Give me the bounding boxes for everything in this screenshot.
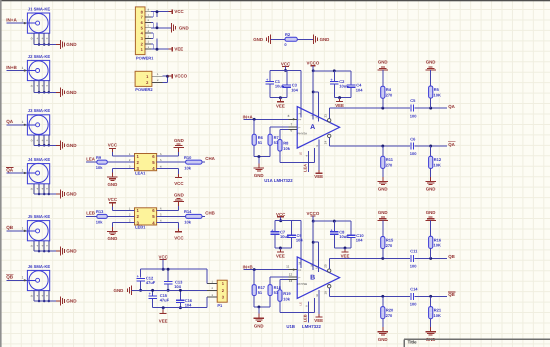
svg-text:47uF: 47uF — [146, 280, 156, 285]
power port VEE below C8/C10 — [341, 246, 350, 258]
svg-text:U1A LMH7322: U1A LMH7322 — [264, 178, 293, 183]
svg-text:10k: 10k — [96, 219, 103, 224]
svg-text:VCC: VCC — [174, 9, 184, 14]
power port VCC lower-right of LEB1 — [157, 223, 185, 241]
wire VCC rail to comparator — [275, 221, 301, 268]
wire hysteresis feedback — [280, 298, 314, 312]
wire bottom of C2/C4 — [334, 97, 351, 99]
svg-text:GND: GND — [108, 236, 118, 241]
svg-text:VCC: VCC — [281, 62, 291, 67]
svg-text:QA: QA — [448, 142, 455, 147]
net label QAbar (inverted) — [448, 142, 455, 147]
resistor R18 51 — [268, 277, 289, 307]
wire bottom of C1/C3 — [270, 97, 287, 99]
ground GND at J5 — [56, 247, 77, 256]
svg-text:R11: R11 — [386, 157, 394, 162]
power port VEE below C1/C3 — [276, 96, 285, 108]
svg-text:+: + — [41, 138, 43, 142]
pin 13 HYS — [289, 279, 298, 283]
svg-text:12: 12 — [289, 273, 293, 277]
svg-text:o: o — [31, 294, 33, 298]
connector POWER1 — [135, 7, 172, 61]
svg-text:19: 19 — [324, 291, 328, 295]
power port VCC above C1/C3 — [281, 62, 291, 72]
svg-text:104: 104 — [356, 238, 363, 243]
power port VEE at U1A supply pin — [314, 140, 323, 180]
svg-text:A: A — [310, 124, 315, 131]
wire VEE rail (bottom) — [153, 307, 207, 309]
svg-text:PHYSA: PHYSA — [298, 132, 308, 136]
svg-text:C11: C11 — [410, 248, 418, 253]
U1A output bubbles and pins — [324, 108, 331, 146]
svg-text:GND: GND — [179, 25, 189, 30]
connector POWER2 — [135, 71, 172, 92]
svg-text:VCC: VCC — [174, 181, 184, 186]
resistor R7 51 — [268, 127, 289, 157]
wire bottom of C7/C9 — [275, 247, 292, 249]
power port VEE at POWER1 — [169, 47, 184, 52]
svg-text:CHB: CHB — [205, 211, 215, 216]
svg-text:QB: QB — [448, 254, 455, 259]
ground GND at J6 — [56, 296, 77, 305]
capacitor C4 104 — [347, 71, 363, 98]
wire U1B Q output — [329, 257, 447, 260]
pin 8 IN+ — [288, 114, 298, 120]
power port VEE at U1B supply pin — [314, 290, 323, 323]
sheet left edge — [0, 0, 2, 347]
sheet top edge — [0, 0, 550, 1]
resistor R12 10K with ground below — [426, 146, 442, 192]
U1B output bubbles and pins — [324, 258, 331, 296]
power port VCCO — [307, 211, 320, 223]
power port VCC upper-left of LEB1 — [108, 197, 135, 211]
ground GND lower-left of LEA1 — [107, 168, 134, 187]
wire middle rail to P1 — [141, 289, 207, 291]
svg-text:QB: QB — [6, 275, 14, 280]
capacitor C1 10uF — [266, 70, 285, 97]
ground GND upper-right of LEA1 — [157, 138, 184, 156]
svg-text:VCCO: VCCO — [307, 61, 320, 66]
resistor R11 270 with ground below — [378, 146, 394, 192]
svg-text:QA: QA — [448, 104, 455, 109]
relay LEA1 — [128, 153, 163, 175]
svg-text:24: 24 — [324, 141, 328, 145]
capacitor C2 10uF — [330, 69, 349, 97]
svg-text:GND: GND — [378, 187, 388, 192]
svg-text:1: 1 — [22, 226, 24, 230]
svg-text:+: + — [36, 84, 38, 88]
svg-text:1: 1 — [22, 19, 24, 23]
capacitor C6 100 series — [410, 136, 417, 156]
svg-text:VEE: VEE — [276, 254, 285, 259]
ground GND left of R2 — [253, 35, 285, 44]
net label QA at J3 — [6, 119, 14, 124]
svg-text:GND: GND — [426, 210, 436, 215]
ground GND at J1 — [56, 40, 77, 49]
svg-text:1: 1 — [22, 168, 24, 172]
power port VCC lower-right of LEA1 — [157, 168, 185, 186]
svg-text:270: 270 — [386, 313, 393, 318]
svg-text:104: 104 — [296, 238, 303, 243]
svg-text:VEE: VEE — [276, 103, 285, 108]
capacitor C13 104 — [164, 268, 183, 292]
net label IN+A at J1 — [6, 17, 17, 22]
designator U1B LMH7322 — [286, 324, 321, 329]
svg-text:+: + — [36, 37, 38, 41]
connector P1 — [207, 280, 227, 308]
svg-text:GND: GND — [378, 210, 388, 215]
svg-text:GND: GND — [426, 60, 436, 65]
power port VCCO at POWER2 — [169, 74, 188, 79]
capacitor C14 100 series — [410, 287, 419, 307]
ground GND right of R2 — [297, 35, 329, 44]
power port VCC above C12/C13 — [159, 254, 169, 270]
ground GND upper-right of LEB1 — [157, 192, 184, 210]
svg-text:104: 104 — [174, 284, 181, 289]
resistor R4 270 with ground above — [378, 60, 393, 109]
svg-text:o: o — [31, 244, 33, 248]
svg-text:1: 1 — [22, 120, 24, 124]
resistor R14 10k to net label CHB from LEB1 pin 5 — [157, 209, 215, 225]
svg-text:o: o — [31, 37, 33, 41]
svg-text:B: B — [310, 275, 315, 282]
svg-text:J1 SMA-KE: J1 SMA-KE — [28, 6, 51, 11]
connector J2 SMA-KE — [6, 54, 56, 94]
svg-text:IN+A: IN+A — [6, 17, 17, 22]
resistor R17 51 — [252, 270, 266, 307]
net label LEA with resistor R9 10k into LEA1 pin 2 — [86, 155, 134, 170]
resistor R19 10k — [278, 280, 292, 313]
svg-text:GND: GND — [253, 37, 263, 42]
svg-text:R15: R15 — [386, 237, 394, 242]
op-amp U1A LMH7322 comparator A — [297, 107, 339, 149]
wire VCCO rail to C2/C4 — [313, 70, 351, 72]
svg-text:VEE: VEE — [341, 254, 350, 259]
svg-text:10K: 10K — [434, 243, 441, 248]
wire U1A Q output — [329, 107, 447, 110]
svg-text:GND: GND — [66, 42, 77, 47]
ground GND lower-left of LEB1 — [107, 223, 134, 242]
svg-text:C6: C6 — [410, 136, 416, 141]
capacitor C12 47uF — [136, 269, 155, 292]
net label QBbar (inverted) — [448, 292, 455, 297]
net label LEB with resistor R13 10k into LEB1 pin 2 — [86, 209, 134, 224]
svg-text:R14: R14 — [184, 209, 192, 214]
svg-text:+: + — [41, 187, 43, 191]
svg-text:R21: R21 — [434, 308, 442, 313]
wire U1A Qbar output — [329, 145, 447, 148]
svg-text:10k: 10k — [184, 165, 191, 170]
svg-text:GND: GND — [66, 299, 77, 304]
capacitor C16 104 — [176, 289, 193, 309]
svg-text:104: 104 — [185, 302, 192, 307]
svg-text:LEA1: LEA1 — [135, 170, 146, 175]
svg-text:R8: R8 — [283, 141, 289, 146]
svg-text:LEB: LEB — [86, 211, 95, 216]
svg-text:LEA: LEA — [303, 164, 308, 172]
svg-text:LE: LE — [298, 302, 302, 306]
svg-text:7: 7 — [290, 122, 292, 126]
svg-text:270: 270 — [386, 243, 393, 248]
power port VCC at POWER1 — [169, 9, 185, 14]
svg-text:R10: R10 — [184, 155, 192, 160]
op-amp U1B LMH7322 comparator B — [297, 257, 339, 299]
svg-text:+: + — [41, 84, 43, 88]
svg-text:GND: GND — [114, 288, 124, 293]
svg-text:+: + — [46, 37, 48, 41]
net label LEB latch-enable pin — [298, 301, 308, 322]
svg-text:47uF: 47uF — [160, 298, 170, 303]
power port VEE below C15/C16 — [159, 306, 168, 323]
power port VCC upper-left of LEA1 — [108, 143, 135, 157]
svg-text:GND: GND — [108, 182, 118, 187]
U1A supply pin numbers — [299, 113, 319, 157]
wire VCC rail to comparator — [270, 70, 301, 117]
wire VCCO down to comparator — [312, 221, 319, 272]
svg-text:51: 51 — [258, 140, 263, 145]
wire hysteresis feedback — [280, 148, 314, 162]
svg-text:+: + — [46, 187, 48, 191]
svg-text:>-: >- — [298, 276, 301, 280]
svg-text:VCC: VCC — [276, 212, 286, 217]
svg-text:VCC: VCC — [108, 197, 118, 202]
svg-text:R12: R12 — [434, 157, 442, 162]
resistor R15 270 with ground above — [378, 210, 394, 259]
svg-text:GND: GND — [66, 90, 77, 95]
net label IN+B at J2 — [6, 65, 17, 70]
svg-text:C14: C14 — [410, 287, 418, 292]
svg-text:R16: R16 — [434, 237, 442, 242]
svg-text:LEB: LEB — [303, 314, 308, 322]
svg-text:+: + — [46, 294, 48, 298]
svg-text:10K: 10K — [434, 92, 441, 97]
svg-text:R2: R2 — [285, 32, 291, 37]
svg-text:LMH7322: LMH7322 — [302, 324, 321, 329]
svg-text:GND: GND — [378, 60, 388, 65]
svg-text:QA: QA — [6, 119, 14, 124]
ground GND below R6/R7 — [254, 155, 270, 178]
svg-text:20: 20 — [324, 264, 328, 268]
capacitor C9 104 — [287, 221, 303, 248]
ground GND at J2 — [56, 88, 77, 97]
svg-text:LEB1: LEB1 — [135, 225, 146, 230]
svg-text:J2 SMA-KE: J2 SMA-KE — [28, 54, 51, 59]
svg-text:100: 100 — [410, 151, 417, 156]
svg-text:GND: GND — [66, 143, 77, 148]
svg-text:POWER1: POWER1 — [136, 56, 154, 61]
svg-text:VCC: VCC — [174, 235, 184, 240]
svg-text:104: 104 — [356, 87, 363, 92]
svg-text:8: 8 — [288, 114, 290, 118]
power port VEE below C2/C4 — [335, 96, 344, 108]
pin 12 IN- — [289, 273, 298, 278]
connector J1 SMA-KE — [6, 6, 56, 45]
capacitor C10 104 — [347, 221, 365, 248]
svg-text:Title: Title — [408, 340, 418, 345]
wire bottom of C8/C10 — [334, 247, 351, 249]
capacitor C11 100 series — [410, 248, 418, 268]
power port VCCO — [307, 61, 320, 73]
wire P1 pin1 to VCC rail — [206, 269, 208, 283]
svg-text:R20: R20 — [386, 308, 394, 313]
wire U1B Qbar output — [329, 295, 447, 298]
svg-text:R4: R4 — [386, 87, 392, 92]
svg-text:POWER2: POWER2 — [135, 87, 153, 92]
capacitor C7 10uF — [271, 221, 290, 248]
svg-text:LEA: LEA — [86, 156, 96, 161]
svg-text:GND: GND — [378, 337, 388, 342]
svg-text:+: + — [41, 244, 43, 248]
wire IN+B to pin 11 — [243, 268, 288, 271]
svg-text:IN+B: IN+B — [6, 65, 17, 70]
svg-text:10k: 10k — [283, 146, 290, 151]
connector J3 SMA-KE — [6, 108, 56, 146]
svg-text:10k: 10k — [96, 165, 103, 170]
svg-text:1: 1 — [22, 66, 24, 70]
svg-text:VCC: VCC — [108, 143, 118, 148]
svg-text:VCCO: VCCO — [307, 211, 320, 216]
svg-text:+: + — [46, 244, 48, 248]
svg-text:VEE: VEE — [314, 318, 323, 323]
svg-text:J6 SMA-KE: J6 SMA-KE — [28, 264, 51, 269]
svg-text:10K: 10K — [434, 163, 441, 168]
net label LEA latch-enable pin — [298, 151, 308, 172]
net label QB (inverted) at J6 — [6, 275, 14, 280]
svg-text:QA: QA — [6, 167, 14, 172]
ground GND below R17/R18 — [254, 305, 270, 328]
svg-text:>+: >+ — [298, 118, 302, 122]
ground GND left of middle rail — [114, 286, 141, 295]
svg-text:>-: >- — [298, 125, 301, 129]
svg-text:GND: GND — [254, 173, 264, 178]
svg-text:GND: GND — [66, 249, 77, 254]
relay LEB1 — [128, 207, 163, 229]
resistor R16 10K with ground above — [426, 210, 442, 259]
svg-text:VEE: VEE — [335, 103, 344, 108]
svg-text:13: 13 — [289, 279, 293, 283]
resistor R5 10K with ground above — [426, 60, 441, 109]
svg-text:o: o — [31, 187, 33, 191]
svg-text:GND: GND — [320, 37, 330, 42]
svg-text:U1B: U1B — [286, 324, 295, 329]
power port VCC above C7/C9 — [276, 212, 286, 222]
svg-text:+: + — [36, 187, 38, 191]
svg-text:270: 270 — [386, 163, 393, 168]
title block border — [404, 339, 550, 347]
svg-text:IN+B: IN+B — [243, 265, 253, 270]
svg-text:o: o — [31, 84, 33, 88]
pin 11 IN+ — [286, 264, 297, 270]
svg-text:270: 270 — [386, 93, 393, 98]
capacitor C8 10uF — [330, 220, 349, 248]
power port GND at POWER1 — [172, 23, 189, 32]
svg-text:PHYSB: PHYSB — [298, 282, 308, 286]
wire VCCO down to comparator — [312, 71, 319, 122]
wire IN+A to pin 8 — [243, 118, 288, 121]
capacitor C15 47uF — [148, 289, 169, 308]
resistor R10 10k to net label CHA from LEA1 pin 5 — [157, 155, 216, 171]
svg-text:+: + — [41, 294, 43, 298]
svg-text:J5 SMA-KE: J5 SMA-KE — [28, 214, 51, 219]
svg-text:J4 SMA-KE: J4 SMA-KE — [28, 157, 51, 162]
svg-text:QB: QB — [6, 225, 14, 230]
resistor R21 10K with ground below — [426, 296, 442, 342]
U1B supply pin numbers — [299, 261, 319, 306]
capacitor C3 104 — [283, 70, 299, 97]
wire P1 pin3 to VEE rail — [206, 297, 208, 308]
svg-text:R13: R13 — [96, 209, 104, 214]
capacitor C5 100 series — [410, 98, 417, 118]
svg-text:QB: QB — [448, 292, 455, 297]
svg-text:+: + — [36, 294, 38, 298]
svg-text:IN+A: IN+A — [243, 114, 254, 119]
svg-text:104: 104 — [291, 87, 298, 92]
svg-text:VEE: VEE — [159, 318, 168, 323]
svg-text:+: + — [36, 244, 38, 248]
resistor R2 value 0 — [284, 32, 297, 47]
svg-text:GND: GND — [254, 323, 264, 328]
svg-text:100: 100 — [410, 302, 417, 307]
resistor R8 10k — [278, 129, 291, 162]
connector J6 SMA-KE — [6, 264, 56, 302]
svg-text:10k: 10k — [184, 220, 191, 225]
svg-text:GND: GND — [174, 138, 184, 143]
svg-text:VCCO: VCCO — [174, 74, 187, 79]
svg-text:R5: R5 — [434, 87, 440, 92]
svg-text:11: 11 — [286, 264, 289, 268]
svg-text:VEE: VEE — [314, 174, 323, 179]
connector J5 SMA-KE — [6, 214, 56, 252]
svg-text:51: 51 — [258, 290, 263, 295]
wire VCC rail (top) — [141, 268, 207, 270]
svg-text:10k: 10k — [283, 296, 290, 301]
svg-text:C5: C5 — [410, 98, 416, 103]
svg-text:+: + — [46, 138, 48, 142]
pin 7 IN- — [289, 122, 298, 127]
svg-text:J3 SMA-KE: J3 SMA-KE — [28, 108, 51, 113]
svg-text:R9: R9 — [96, 155, 102, 160]
svg-text:R19: R19 — [283, 291, 291, 296]
svg-text:VEE: VEE — [174, 47, 183, 52]
pin 6 HYS — [289, 129, 298, 133]
ground GND at J4 — [56, 189, 77, 198]
svg-text:P1: P1 — [217, 303, 223, 308]
svg-text:LE: LE — [298, 152, 302, 156]
svg-text:GND: GND — [174, 192, 184, 197]
svg-text:100: 100 — [410, 264, 417, 269]
svg-text:+: + — [46, 84, 48, 88]
wire VCCO rail to C8/C10 — [313, 220, 351, 222]
power port VEE below C7/C9 — [276, 247, 285, 259]
resistor R6 51 — [252, 119, 263, 156]
ground GND at J3 — [56, 141, 77, 150]
svg-text:+: + — [41, 37, 43, 41]
svg-text:VCC: VCC — [159, 254, 169, 259]
svg-text:1: 1 — [22, 276, 24, 280]
connector J4 SMA-KE — [6, 157, 56, 195]
svg-text:10K: 10K — [434, 313, 441, 318]
svg-text:23: 23 — [324, 114, 328, 118]
resistor R20 270 with ground below — [378, 296, 394, 342]
net label QA (inverted) at J4 — [6, 167, 14, 172]
svg-text:100: 100 — [410, 113, 417, 118]
svg-text:6: 6 — [290, 129, 292, 133]
svg-text:>+: >+ — [298, 268, 302, 272]
svg-text:o: o — [31, 138, 33, 142]
svg-text:GND: GND — [426, 187, 436, 192]
svg-text:GND: GND — [66, 192, 77, 197]
svg-text:+: + — [36, 138, 38, 142]
